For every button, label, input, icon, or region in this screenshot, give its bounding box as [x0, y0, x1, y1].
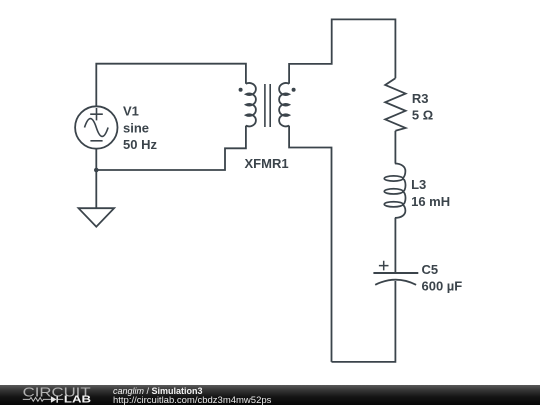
wire primary bottom to node A: [96, 126, 246, 170]
svg-text:sine: sine: [123, 120, 149, 135]
footer bar: [0, 385, 540, 405]
capacitor C5: [373, 261, 418, 285]
transformer XFMR1 core: [265, 84, 270, 127]
inductor L3: [384, 164, 405, 218]
wire C5 bottom to bottom rail: [332, 281, 396, 362]
svg-text:L3: L3: [411, 177, 426, 192]
label R3 value: [412, 91, 433, 123]
transformer XFMR1 secondary coil: [279, 83, 289, 126]
voltage source V1: [75, 106, 117, 148]
wire V1 top to primary top: [96, 64, 246, 107]
wire secondary bottom to bottom rail: [289, 126, 331, 362]
transformer XFMR1 primary phase dot: [239, 88, 243, 92]
wire V1 bottom to ground: [95, 149, 97, 209]
label V1 value: [123, 104, 157, 152]
svg-text:50 Hz: 50 Hz: [123, 137, 157, 152]
resistor R3: [385, 78, 405, 131]
CircuitLab logo: [0, 385, 100, 405]
svg-text:600 µF: 600 µF: [422, 279, 463, 294]
node A junction dot: [94, 168, 99, 173]
footer credit text: [112, 384, 114, 386]
svg-text:R3: R3: [412, 91, 429, 106]
wire secondary top to R3 top: [289, 19, 395, 83]
ground: [79, 208, 115, 227]
wire L3 bottom to C5 top: [394, 218, 396, 272]
svg-text:5 Ω: 5 Ω: [412, 108, 433, 123]
transformer XFMR1 primary coil: [246, 83, 256, 126]
wire R3 bottom to L3 top: [394, 131, 396, 164]
label L3 value: [411, 177, 450, 209]
svg-text:XFMR1: XFMR1: [245, 156, 289, 171]
svg-text:LAB: LAB: [64, 395, 91, 405]
transformer XFMR1 secondary phase dot: [292, 88, 296, 92]
svg-text:C5: C5: [422, 262, 439, 277]
svg-text:16 mH: 16 mH: [411, 194, 450, 209]
label C5 value: [422, 262, 463, 294]
svg-text:V1: V1: [123, 104, 139, 119]
